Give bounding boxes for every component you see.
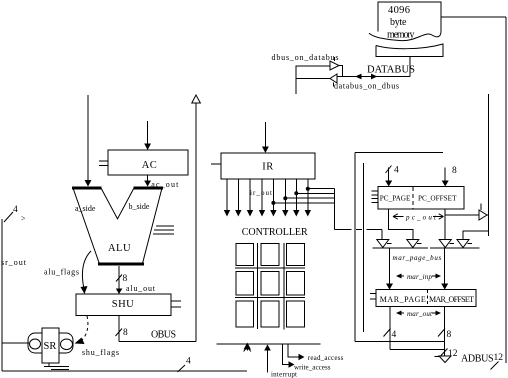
wire IR left stub — [211, 163, 221, 165]
ALU U-shape — [72, 188, 163, 264]
ALU right ticks — [153, 226, 174, 234]
svg-text:ir_out: ir_out — [250, 189, 272, 197]
wire PC offset input with 8 — [442, 166, 457, 187]
OBUS top open arrow — [192, 95, 201, 103]
bus flags bottom — [2, 357, 247, 373]
wire AC input — [144, 121, 151, 150]
label mar_out — [396, 310, 441, 318]
right section top wire — [355, 152, 443, 154]
bus mar_page_bus — [373, 248, 480, 262]
wire MAR offset input — [441, 248, 448, 290]
wire alu_out — [116, 266, 156, 294]
register PC — [378, 187, 464, 210]
svg-text:AC: AC — [142, 160, 158, 171]
svg-text:IR: IR — [262, 162, 274, 173]
svg-text:PC_PAGE: PC_PAGE — [380, 194, 411, 203]
sr_out width 4 marker — [4, 205, 26, 223]
svg-text:read_access: read_access — [308, 354, 344, 362]
IR output lines x8 — [224, 179, 311, 217]
wire MAR page input — [386, 248, 393, 290]
MAR left ticks — [370, 293, 376, 299]
buffer T1 — [377, 240, 392, 248]
PC left ticks — [372, 191, 378, 203]
svg-text:8: 8 — [447, 330, 452, 340]
register IR — [221, 153, 315, 179]
wire ir bundle to right — [273, 189, 382, 240]
buffer T3 — [439, 240, 454, 248]
svg-text:DATABUS: DATABUS — [367, 65, 415, 76]
svg-text:memory: memory — [387, 30, 415, 41]
svg-text:dbus_on_databus: dbus_on_databus — [272, 53, 339, 62]
wire shu_flags dashed — [75, 316, 120, 357]
AC clock ticks — [99, 161, 108, 166]
wire buffer to databus — [339, 66, 343, 77]
wire PC page input with 4 — [385, 166, 399, 187]
svg-text:OBUS: OBUS — [151, 330, 176, 341]
ADBUS open arrow — [435, 356, 452, 363]
svg-text:8: 8 — [123, 274, 128, 284]
wire shu output 8 — [116, 316, 129, 342]
label pc_out with arrows — [393, 214, 444, 222]
wire interrupt — [264, 345, 297, 378]
svg-text:8: 8 — [123, 328, 128, 338]
wire PC_PAGE down dogleg to T2 — [389, 209, 413, 239]
buffer databus_on_dbus — [330, 74, 399, 91]
memory block — [369, 2, 441, 41]
svg-text:4: 4 — [13, 205, 18, 215]
buffer pc_out to dbus — [479, 204, 489, 221]
wire PC_OFFSET down to T3 — [444, 209, 446, 239]
controller grid separators — [235, 243, 305, 330]
label mar_inp — [396, 273, 441, 281]
dbus left stub — [295, 66, 297, 95]
svg-text:4096: 4096 — [388, 5, 410, 16]
svg-text:databus_on_dbus: databus_on_dbus — [334, 82, 399, 91]
buffer T4 — [457, 240, 472, 248]
controller grid cells — [236, 244, 305, 328]
wire read_access — [288, 344, 344, 362]
adbus width 12 marker — [441, 349, 458, 360]
junction dots on ir lines — [271, 187, 309, 205]
bus OBUS loop — [119, 103, 196, 341]
bus DATABUS — [337, 65, 415, 80]
svg-text:4: 4 — [392, 330, 397, 340]
register SHU — [76, 294, 171, 316]
flags arrow into control bus — [244, 343, 252, 352]
svg-text:b_side: b_side — [129, 202, 150, 211]
long vertical v2 — [363, 163, 365, 332]
svg-text:SHU: SHU — [112, 299, 135, 310]
svg-text:PC_OFFSET: PC_OFFSET — [418, 194, 457, 203]
adbus 12 on memory line — [491, 353, 504, 370]
svg-text:CONTROLLER: CONTROLLER — [242, 227, 308, 238]
wire sr_out vertical — [1, 219, 27, 371]
wire MAR page output with 4 — [384, 306, 397, 349]
wire a_side input — [85, 95, 92, 187]
wire IR input — [262, 122, 269, 153]
register MAR — [376, 290, 476, 307]
wire MAR offset output with 8 — [438, 306, 452, 356]
wire memory to adbus (right side) — [441, 17, 506, 363]
svg-text:mar_page_bus: mar_page_bus — [393, 254, 442, 262]
wire SR left input — [2, 342, 29, 344]
svg-text:SR: SR — [44, 341, 57, 352]
svg-text:shu_flags: shu_flags — [82, 348, 119, 357]
svg-text:interrupt: interrupt — [271, 371, 297, 378]
register SR — [28, 328, 73, 363]
svg-text:alu_flags: alu_flags — [44, 268, 79, 277]
wire dbus to buffer — [296, 65, 330, 67]
svg-text:4: 4 — [186, 357, 191, 367]
wire h2 page joins offset — [390, 348, 445, 350]
svg-text:write_access: write_access — [294, 364, 331, 372]
wire alu_flags — [44, 251, 91, 294]
svg-text:>: > — [21, 214, 26, 223]
wire h1 from v1 — [355, 340, 445, 342]
svg-text:byte: byte — [390, 17, 407, 28]
svg-text:mar_inp: mar_inp — [407, 273, 433, 281]
svg-text:8: 8 — [452, 166, 457, 176]
svg-text:alu_out: alu_out — [126, 284, 156, 293]
wire pc_out to buffer — [445, 214, 479, 216]
register AC — [108, 150, 188, 175]
svg-text:ADBUS: ADBUS — [461, 354, 494, 365]
wire write_access — [283, 344, 331, 372]
svg-text:MAR_PAGE: MAR_PAGE — [380, 295, 426, 304]
svg-text:MAR_OFFSET: MAR_OFFSET — [429, 295, 474, 304]
wire buffer to dbus stub — [296, 78, 330, 80]
svg-text:a_side: a_side — [75, 204, 96, 213]
svg-text:sr_out: sr_out — [1, 258, 27, 267]
svg-text:4: 4 — [394, 166, 399, 176]
buffer T2 — [407, 240, 422, 248]
ground under SR — [44, 363, 69, 370]
SHU right ticks — [171, 301, 181, 307]
svg-text:ALU: ALU — [108, 243, 131, 254]
control bus line — [216, 343, 320, 345]
memory lower band — [376, 44, 443, 57]
long vertical v1 — [354, 153, 356, 342]
wire memory to databus — [409, 57, 411, 77]
wire dbus to T4 — [463, 231, 489, 240]
wire ac_out — [144, 175, 179, 189]
buffer dbus_on_databus — [272, 53, 340, 70]
dbus right vertical — [488, 94, 490, 236]
svg-text:mar_out: mar_out — [407, 310, 433, 318]
